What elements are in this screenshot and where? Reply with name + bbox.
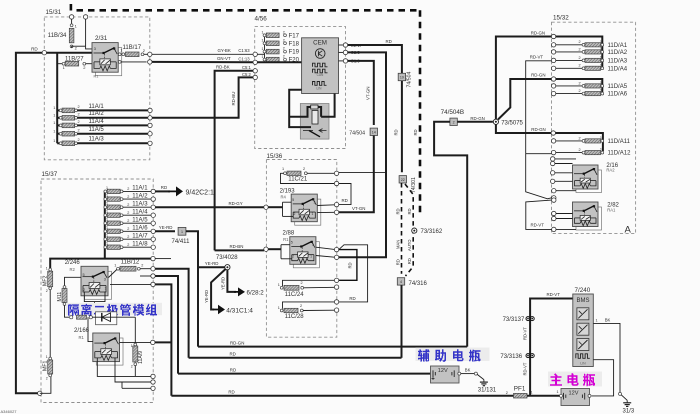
svg-text:3: 3 <box>104 277 106 281</box>
svg-text:R1: R1 <box>94 75 99 79</box>
svg-text:2: 2 <box>127 235 129 239</box>
svg-text:A: A <box>625 225 632 236</box>
svg-text:RD: RD <box>230 367 236 372</box>
wire 11C/24 pin1 jog up to circle <box>283 280 335 286</box>
fuse 11A/4 in 15/37 row <box>104 214 107 217</box>
RD-VT jumper A12 row and diagonal <box>526 153 552 155</box>
circle 11A/4 out on 15/37 edge <box>151 213 155 217</box>
svg-text:11A/3: 11A/3 <box>132 201 148 207</box>
svg-text:73/3137: 73/3137 <box>503 317 525 323</box>
svg-text:9/42C2:1: 9/42C2:1 <box>186 189 215 196</box>
wire RD line to aux battery <box>178 373 431 375</box>
wire splice down to 15/32 RD-GN A11 entry <box>496 124 551 133</box>
wire MF2 to MF1 <box>49 290 51 359</box>
svg-text:GY-BK: GY-BK <box>218 48 231 53</box>
svg-text:RD-GY: RD-GY <box>229 201 243 206</box>
svg-text:1: 1 <box>262 31 264 35</box>
svg-text:CAN: CAN <box>317 73 324 77</box>
connector 19 74/504 <box>398 73 405 80</box>
box 15/31 power distribution unit <box>44 17 150 160</box>
wire aux battery BK to ground 31/131 <box>458 372 461 375</box>
wire relay 2/246 pin5 to M11 <box>65 277 82 287</box>
svg-text:73/4028: 73/4028 <box>216 255 238 261</box>
svg-text:1: 1 <box>262 39 264 43</box>
connector 22 74/301 <box>399 176 406 183</box>
wire diode row to 11A/9 <box>134 317 136 344</box>
wire BMS LIN out to battery plus <box>592 360 614 396</box>
svg-text:31/3: 31/3 <box>623 408 635 414</box>
svg-text:RD-VT: RD-VT <box>531 223 545 228</box>
svg-text:RD: RD <box>396 259 401 265</box>
wire RD from C2:17 down to 74/301 <box>348 45 402 172</box>
relay 2/82 pin wires <box>552 196 556 200</box>
svg-text:74/411: 74/411 <box>172 239 191 245</box>
switch block internal resistor element <box>311 105 318 109</box>
svg-text:2: 2 <box>78 113 80 117</box>
svg-text:11D/A12: 11D/A12 <box>608 151 632 157</box>
svg-text:2/246: 2/246 <box>65 260 81 266</box>
connector circles C2:17 C2:5 C1:9 <box>339 44 344 46</box>
diode module box <box>70 316 73 319</box>
15/32 block1 entry RD-GN <box>551 34 555 38</box>
circle relay out on edge 276 <box>151 274 155 278</box>
svg-text:RD-BK: RD-BK <box>216 65 230 70</box>
fuse 11D/A3 <box>551 58 555 62</box>
wire 11B/12 out down to RD line <box>155 269 188 358</box>
main battery 12V <box>561 389 590 406</box>
wire RD bottom line to PF1 <box>171 395 513 397</box>
svg-text:15/37: 15/37 <box>42 171 58 178</box>
svg-text:1: 1 <box>278 283 280 287</box>
svg-text:1: 1 <box>600 148 602 152</box>
wire 74/504B down to RD-GN bottom line <box>434 122 467 347</box>
svg-text:1: 1 <box>600 63 602 67</box>
svg-text:1: 1 <box>181 230 183 234</box>
wire RD-BN from C5:1 line to relay 2/88 <box>215 249 264 251</box>
RD jumper loop outside 15/36 <box>339 184 351 205</box>
svg-text:2: 2 <box>579 89 581 93</box>
svg-text:RD: RD <box>407 208 412 214</box>
svg-text:4/31C1:4: 4/31C1:4 <box>226 307 253 314</box>
svg-text:1: 1 <box>53 114 55 118</box>
svg-text:1: 1 <box>53 139 55 143</box>
bus vertical 15/37 fuse feed <box>104 191 106 258</box>
bus vertical 15/31 fuse feed <box>56 53 58 144</box>
box 4/56 CEM module <box>255 27 346 149</box>
wire diode row down to 2/166 pin5 <box>88 317 93 341</box>
wire splice diagonal to 15/32 RD-GN second entry <box>498 79 552 120</box>
circle relay coil out on edge 284.4 <box>151 282 155 286</box>
wire CEM to switch block right loop <box>321 94 335 117</box>
svg-text:RD: RD <box>407 258 412 264</box>
svg-text:1: 1 <box>600 40 602 44</box>
fuse 11D/A12 <box>551 150 555 154</box>
fuse 11A/5 in 15/31 row <box>57 133 59 135</box>
fuse 11A/3 in 15/31 row <box>57 142 59 144</box>
svg-text:2: 2 <box>579 136 581 140</box>
svg-text:15/31: 15/31 <box>46 9 62 16</box>
junction wire 11C/21 to RD line <box>339 171 386 173</box>
svg-text:6/28:2: 6/28:2 <box>247 289 265 296</box>
svg-text:11D/A5: 11D/A5 <box>608 84 628 90</box>
wire 2/88 coil pin1 to RD circle <box>316 256 335 258</box>
circle B on 15/31 top edge <box>83 15 87 19</box>
svg-text:LIN: LIN <box>317 86 323 90</box>
svg-text:RD-GN: RD-GN <box>531 127 545 132</box>
wire RD-BU C5:2 down to 11A/2 row <box>152 77 254 117</box>
box 15/37 power distribution unit <box>41 179 153 403</box>
svg-text:RD-VT: RD-VT <box>522 327 527 340</box>
connector 74/411 <box>178 227 186 235</box>
wire RD main feed left <box>16 53 92 394</box>
svg-text:1: 1 <box>262 47 264 51</box>
svg-text:1: 1 <box>105 287 107 291</box>
thick dashed zone divider bus <box>70 4 73 14</box>
svg-text:C5:2: C5:2 <box>242 72 252 77</box>
wire RD-GY entry splits to 2/193 pins <box>264 205 268 209</box>
fuse 11A/6 in 15/37 row <box>104 230 107 233</box>
svg-text:1: 1 <box>282 167 284 171</box>
wire RD-BN entry splits to 2/88 pins <box>264 247 268 251</box>
aux battery 12V <box>431 366 460 383</box>
svg-text:2/166: 2/166 <box>74 328 90 334</box>
svg-text:RD: RD <box>348 262 353 268</box>
svg-text:14: 14 <box>372 130 376 134</box>
svg-text:11A/8: 11A/8 <box>132 241 148 247</box>
svg-text:2: 2 <box>46 377 48 381</box>
svg-text:74/316: 74/316 <box>409 281 428 287</box>
wire 2/166 coil pins down to rows <box>97 358 151 377</box>
wire 2/246 coil pins down <box>84 292 94 302</box>
svg-text:R4: R4 <box>281 195 287 200</box>
svg-text:1: 1 <box>46 266 48 270</box>
splice 73/3162 on AUTO line <box>412 228 417 233</box>
svg-text:2: 2 <box>579 47 581 51</box>
fuse 11A/8 in 15/37 row <box>104 246 107 249</box>
circle 11A/4 out on 15/31 edge <box>148 123 152 127</box>
svg-text:RD-GN: RD-GN <box>531 30 545 35</box>
svg-text:1: 1 <box>310 255 312 259</box>
svg-text:22: 22 <box>401 178 405 182</box>
svg-text:11A/5: 11A/5 <box>89 127 105 133</box>
svg-text:31/131: 31/131 <box>478 387 497 393</box>
svg-text:2: 2 <box>127 195 129 199</box>
wire RD-VT main battery to BMS <box>530 299 573 396</box>
svg-text:LIN: LIN <box>580 361 586 365</box>
svg-text:2: 2 <box>78 129 80 133</box>
svg-text:1: 1 <box>312 212 314 216</box>
magenta label main battery <box>548 372 602 387</box>
svg-text:11A/3: 11A/3 <box>89 137 105 143</box>
wire VT-GN from C1:9 down to 2/193 <box>348 61 374 125</box>
wire GY-BK C1:63 <box>152 53 253 55</box>
svg-text:2: 2 <box>127 187 129 191</box>
fuse 11B/34 <box>69 15 73 19</box>
svg-text:15/36: 15/36 <box>267 153 283 160</box>
wire splice down to arrow 6/28:2 <box>227 270 236 292</box>
svg-text:VT-GN: VT-GN <box>352 206 365 211</box>
svg-text:2: 2 <box>78 120 80 124</box>
circle 11A/3 out on 15/37 edge <box>151 205 155 209</box>
svg-text:R1: R1 <box>283 237 289 242</box>
ground 31/131 <box>483 380 485 383</box>
svg-text:RD-VT: RD-VT <box>547 292 561 297</box>
wire RD line 357.8 <box>189 357 402 359</box>
svg-text:RD: RD <box>394 129 399 135</box>
fuse 11D/A1 <box>551 43 555 47</box>
svg-text:2: 2 <box>141 264 143 268</box>
circle bottom left edge 15/37 <box>38 391 42 395</box>
wire 11C/28 pin1 jog up to circle <box>283 302 335 309</box>
circle 11A/2 out on 15/37 edge <box>151 197 155 201</box>
wire YE-RD to 74/411 <box>155 230 175 232</box>
CEM fuses F17-F20 <box>264 35 266 59</box>
svg-text:C5:1: C5:1 <box>242 65 252 70</box>
wire GN-VT C1:13 <box>152 61 253 63</box>
wire RD from C2:5 down to 2/88 coil <box>339 52 386 257</box>
svg-text:1: 1 <box>53 106 55 110</box>
svg-text:YE-RD: YE-RD <box>221 277 226 290</box>
fuse 11A/5 in 15/37 row <box>104 222 107 225</box>
svg-text:11A/5: 11A/5 <box>132 217 148 223</box>
wire splice up to 15/32 RD-GN top entry <box>496 37 552 120</box>
svg-text:3: 3 <box>312 243 314 247</box>
svg-text:BMS: BMS <box>576 298 589 304</box>
svg-text:PF1: PF1 <box>514 386 526 393</box>
connector 14 74/504 <box>370 128 377 135</box>
circle GY-BK out on 15/31 edge <box>148 52 152 56</box>
wire 2/166 pin3 out to edge circle <box>151 340 155 344</box>
wire from 74/411 down to RD-GN line <box>186 231 198 346</box>
blue label auxiliary battery <box>416 348 490 362</box>
svg-text:RA1: RA1 <box>607 207 616 212</box>
svg-text:2: 2 <box>283 38 285 42</box>
wire 2/246 pin3 diagonal to 11B/12 <box>109 270 117 278</box>
svg-text:5: 5 <box>83 273 85 277</box>
svg-text:2: 2 <box>127 219 129 223</box>
svg-text:2: 2 <box>453 120 455 124</box>
svg-text:RD: RD <box>161 185 167 190</box>
wire to MF1 bottom <box>40 377 51 394</box>
svg-text:RD: RD <box>396 208 401 214</box>
svg-text:RD: RD <box>349 296 355 301</box>
fuse 11D/A5 <box>551 84 555 88</box>
wire 2/193 pin3 to edge circle <box>317 204 334 207</box>
svg-text:YE-RD: YE-RD <box>159 225 173 230</box>
wire splice diagonal down to arrow 4/31C1:4 <box>211 269 226 310</box>
svg-text:11A/2: 11A/2 <box>89 111 105 117</box>
fuse 11D/A11 <box>551 139 555 143</box>
wire 11A/9 down to row 377 <box>134 366 136 377</box>
wire 2/193 coil pin1 to VT-GN circle <box>317 211 334 213</box>
svg-text:11B/17: 11B/17 <box>123 45 142 51</box>
svg-text:2: 2 <box>294 212 296 216</box>
circle 11A/5 out on 15/31 edge <box>148 132 152 136</box>
svg-text:1: 1 <box>262 55 264 59</box>
svg-text:11A/7: 11A/7 <box>132 233 148 239</box>
svg-text:F17: F17 <box>289 33 300 39</box>
svg-text:2: 2 <box>579 64 581 68</box>
svg-text:2: 2 <box>579 56 581 60</box>
thin jumper 2/88 pin3 to 11C/28 <box>339 245 368 302</box>
connector 74/316 <box>397 278 404 285</box>
svg-text:11D/A4: 11D/A4 <box>608 66 628 72</box>
svg-text:11A/1: 11A/1 <box>132 186 148 192</box>
wire relay 2/31 switch out to fuse 11B/17 <box>118 53 121 56</box>
svg-text:2: 2 <box>300 304 302 308</box>
fuse 11A/2 in 15/31 row <box>57 117 59 119</box>
svg-text:11C/24: 11C/24 <box>285 292 305 298</box>
svg-text:RD-VT: RD-VT <box>522 362 527 375</box>
svg-text:11D/A1: 11D/A1 <box>608 43 628 49</box>
svg-text:RD-GN: RD-GN <box>531 73 545 78</box>
svg-text:2: 2 <box>78 138 80 142</box>
svg-text:15/32: 15/32 <box>553 15 569 22</box>
circle 11A/6 out on 15/37 edge <box>151 229 155 233</box>
svg-text:74/504: 74/504 <box>407 72 413 88</box>
ground 31/3 <box>626 400 628 403</box>
circle 11A/1 out on 15/31 edge <box>148 108 152 112</box>
svg-text:4: 4 <box>400 280 402 284</box>
svg-text:73/3162: 73/3162 <box>421 229 443 235</box>
svg-text:MAN: MAN <box>395 240 400 249</box>
circle 11A/7 out on 15/37 edge <box>151 237 155 241</box>
svg-text:11A/9: 11A/9 <box>138 351 144 364</box>
fuse 11D/A6 <box>551 91 555 95</box>
svg-text:RD-GN: RD-GN <box>470 116 484 121</box>
wire C1:13 to CEM <box>257 61 301 63</box>
svg-text:11A/6: 11A/6 <box>132 226 148 232</box>
svg-text:74/301: 74/301 <box>411 177 417 193</box>
svg-text:2: 2 <box>127 211 129 215</box>
CEM LIN waveform symbol <box>313 82 327 86</box>
wire top feed to MF2 and 11B/12 <box>50 259 151 270</box>
svg-text:11D/A2: 11D/A2 <box>608 50 628 56</box>
wire branch to splice 73/4028 <box>198 266 225 268</box>
RD-VT thin feed to 15/32 <box>526 61 552 154</box>
relay 2/16 pin wires <box>551 157 555 161</box>
svg-text:1: 1 <box>600 136 602 140</box>
fuse 11D/A2 <box>551 50 555 54</box>
wire relay 2/31 coil out GN-VT <box>118 61 121 64</box>
svg-text:RD-GN: RD-GN <box>230 340 244 345</box>
svg-text:5: 5 <box>291 241 293 245</box>
circle 11B/12 out on edge <box>151 267 155 271</box>
wire CEM to switch block left loop <box>289 90 311 127</box>
svg-text:2: 2 <box>283 30 285 34</box>
diode symbol <box>92 316 135 318</box>
svg-text:2/88: 2/88 <box>283 231 295 237</box>
svg-text:RD-BN: RD-BN <box>230 244 244 249</box>
svg-text:1: 1 <box>600 47 602 51</box>
wire 74/504B to splice 73/5075 RD-GN <box>457 121 493 123</box>
wire edge 342 to bottom RD line <box>155 341 171 343</box>
dashed MAN AUTO lines between 74/301 and 74/316 <box>401 183 403 274</box>
svg-text:RD-BU: RD-BU <box>231 92 236 106</box>
wire 11C/21 pin1 jog to lower circle <box>281 173 335 183</box>
arrow 9/42C2:1 <box>168 186 183 196</box>
svg-text:1: 1 <box>600 89 602 93</box>
svg-text:RD: RD <box>228 390 234 395</box>
svg-text:2: 2 <box>131 365 133 369</box>
svg-text:11A/4: 11A/4 <box>132 209 148 215</box>
svg-text:2: 2 <box>301 281 303 285</box>
svg-text:RD: RD <box>386 39 392 44</box>
ignition switch block in 4/56 <box>300 104 329 140</box>
svg-text:RD: RD <box>413 129 418 135</box>
svg-text:2: 2 <box>127 227 129 231</box>
svg-text:VT-GN: VT-GN <box>366 87 371 100</box>
wire 2/88 pin3 to 11C/24 medium <box>339 250 357 281</box>
svg-text:2: 2 <box>506 391 508 395</box>
box 15/32 rear distribution unit <box>552 22 636 233</box>
circle GN-VT out on 15/31 edge <box>148 60 152 64</box>
svg-text:2/31: 2/31 <box>95 35 108 42</box>
svg-text:F18: F18 <box>289 41 300 47</box>
svg-text:CEM: CEM <box>313 39 327 46</box>
15/32 block3 entry RD-GN <box>551 131 555 135</box>
wire C1:63 to fuse bus <box>257 53 264 55</box>
wire 2/88 pin3 to edge circle <box>316 247 335 249</box>
svg-text:1: 1 <box>278 306 280 310</box>
svg-text:5: 5 <box>292 198 294 202</box>
node circle on 15/31 left edge <box>42 51 46 55</box>
RD-VT jumper 2/82 <box>526 200 552 229</box>
svg-text:2: 2 <box>78 105 80 109</box>
svg-text:11D/A6: 11D/A6 <box>608 92 628 98</box>
svg-text:YE-RD: YE-RD <box>205 261 219 266</box>
fuse 11A/1 in 15/31 row <box>57 109 59 111</box>
svg-text:2: 2 <box>303 167 305 171</box>
wire 11C/28 pin2 to edge circle <box>303 309 334 311</box>
svg-text:C1:13: C1:13 <box>238 56 250 61</box>
wire RD-GY to relay 2/193 <box>155 206 264 208</box>
svg-text:2: 2 <box>292 255 294 259</box>
svg-text:12V: 12V <box>569 391 579 397</box>
BMS LIN waveform <box>576 354 590 359</box>
svg-text:1: 1 <box>53 130 55 134</box>
svg-text:2: 2 <box>283 47 285 51</box>
CEM CAN waveform symbols <box>313 63 328 67</box>
svg-text:11B/12: 11B/12 <box>121 260 140 266</box>
fuse 11D/A4 <box>551 66 555 70</box>
svg-text:2: 2 <box>579 81 581 85</box>
wire 11C/24 pin2 to edge circle <box>304 286 335 289</box>
circle 11A/5 out on 15/37 edge <box>151 221 155 225</box>
svg-text:11A/1: 11A/1 <box>89 104 105 110</box>
svg-text:12V: 12V <box>438 368 448 374</box>
svg-text:1: 1 <box>46 355 48 359</box>
svg-text:2: 2 <box>127 203 129 207</box>
svg-text:1: 1 <box>596 319 598 323</box>
svg-text:3: 3 <box>314 201 316 205</box>
wire RD to 9/42C2:1 <box>155 190 170 192</box>
circle 11A/3 out on 15/31 edge <box>148 141 152 145</box>
arrow 4/31C1:4 <box>213 305 225 315</box>
svg-text:RD: RD <box>230 352 236 357</box>
wire RD-BK C5:1 from vertical <box>215 71 254 251</box>
svg-text:RD: RD <box>342 198 348 203</box>
wire RD-GN bottom line <box>198 346 467 348</box>
fuse 11A/1 in 15/37 row <box>104 190 107 193</box>
splice 73/4028 <box>225 265 230 270</box>
svg-text:2: 2 <box>127 243 129 247</box>
svg-text:11D/A3: 11D/A3 <box>608 59 628 65</box>
svg-text:2: 2 <box>83 288 85 292</box>
svg-text:A346027: A346027 <box>1 409 18 414</box>
svg-text:1: 1 <box>600 55 602 59</box>
svg-text:11C/21: 11C/21 <box>288 176 308 182</box>
